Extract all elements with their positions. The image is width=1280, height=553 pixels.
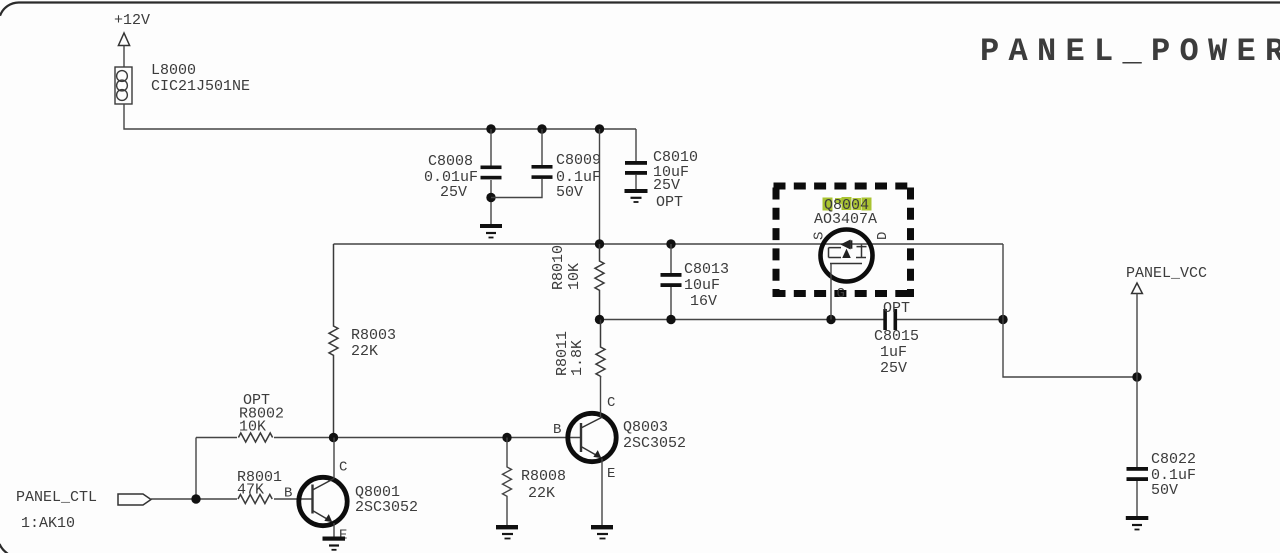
svg-text:G: G: [837, 286, 845, 302]
capacitor C8008 0.01uF 25V: [424, 129, 502, 224]
wire drain drop to output: [1003, 244, 1137, 377]
ground under R8008: [496, 525, 518, 539]
svg-text:1.8K: 1.8K: [569, 340, 586, 376]
node junction bus1-C8009: [537, 124, 546, 133]
mosfet internals: drain contact: [856, 245, 867, 259]
svg-text:1uF: 1uF: [880, 344, 907, 361]
mosfet internals: channel arrow: [843, 250, 850, 258]
svg-text:10K: 10K: [566, 263, 583, 290]
sheet border frame: [0, 2, 1280, 15]
svg-text:50V: 50V: [556, 184, 583, 201]
highlight marks on Q8004: [823, 197, 872, 211]
ground under C8008: [480, 224, 502, 238]
wire PANEL_CTL to R8001: [151, 498, 237, 500]
svg-text:E: E: [607, 466, 615, 482]
capacitor C8009 0.1uF 50V: [491, 129, 601, 201]
node junction bus3-drain drop: [998, 315, 1007, 324]
svg-text:C8008: C8008: [428, 153, 473, 170]
node PANEL_VCC: [1126, 265, 1207, 377]
wire output to C8022: [1136, 377, 1138, 467]
resistor R8001 47K: [237, 469, 282, 504]
node junction bus3-gate: [826, 315, 835, 324]
resistor R8002 10K OPT: [238, 392, 284, 442]
svg-text:C: C: [339, 460, 347, 476]
node junction base bus-R8003: [329, 433, 338, 442]
resistor R8003 22K: [329, 244, 396, 438]
svg-text:L8000: L8000: [151, 62, 196, 79]
svg-text:OPT: OPT: [656, 194, 683, 211]
mosfet internals: source contact: [829, 248, 842, 258]
svg-text:CIC21J501NE: CIC21J501NE: [151, 78, 250, 95]
svg-text:22K: 22K: [528, 485, 555, 502]
wire Q8003 collector to R8011: [600, 376, 602, 417]
svg-text:Q8003: Q8003: [623, 419, 668, 436]
svg-text:C8013: C8013: [684, 261, 729, 278]
svg-text:OPT: OPT: [883, 300, 910, 317]
svg-text:10K: 10K: [239, 419, 266, 436]
wire gate to bus3: [830, 264, 832, 320]
svg-text:10uF: 10uF: [684, 277, 720, 294]
svg-text:50V: 50V: [1151, 482, 1178, 499]
svg-text:47K: 47K: [237, 482, 264, 499]
svg-text:2SC3052: 2SC3052: [355, 499, 418, 516]
wire bus2 source rail: [334, 243, 1004, 245]
transistor Q8001 2SC3052: [299, 477, 418, 525]
svg-text:R8010: R8010: [550, 245, 567, 290]
svg-text:25V: 25V: [880, 360, 907, 377]
svg-text:2SC3052: 2SC3052: [623, 435, 686, 452]
svg-text:25V: 25V: [653, 177, 680, 194]
svg-text:C8022: C8022: [1151, 451, 1196, 468]
mosfet internals: gate plate: [830, 263, 862, 265]
capacitor C8013 10uF 16V: [661, 244, 730, 320]
node junction C8008-C8009 bottom: [486, 193, 495, 202]
node +12V: [114, 12, 150, 46]
node junction output-PANEL_VCC: [1132, 372, 1141, 381]
svg-text:R8003: R8003: [351, 327, 396, 344]
wire +12V arrow to L8000: [123, 46, 125, 68]
svg-text:PANEL_CTL: PANEL_CTL: [16, 489, 97, 506]
mosfet Q8004 AO3407A body circle: [821, 230, 873, 282]
wire R8002 left leg down: [195, 438, 197, 500]
transistor Q8003 2SC3052: [568, 413, 686, 461]
svg-text:+12V: +12V: [114, 12, 150, 29]
node junction bus1-R8010: [595, 124, 604, 133]
svg-text:C8009: C8009: [556, 152, 601, 169]
svg-text:R8008: R8008: [521, 468, 566, 485]
svg-text:1:AK10: 1:AK10: [21, 515, 75, 532]
node junction bus2-R8010: [595, 239, 604, 248]
node PANEL_CTL port: [16, 489, 151, 532]
wire bus1 to bus2 (12V rail drop): [599, 129, 601, 244]
wire R8001 to Q8001 base: [274, 498, 313, 500]
mosfet internals: body diode: [842, 240, 851, 248]
node junction bus3-R8011: [595, 315, 604, 324]
svg-text:16V: 16V: [690, 293, 717, 310]
svg-text:B: B: [284, 486, 292, 502]
ground under Q8001: [323, 537, 346, 550]
wire bus3 gate rail: [600, 319, 1004, 321]
ground under C8022: [1126, 516, 1149, 530]
svg-text:S: S: [812, 232, 828, 240]
wire Q8001 emitter: [333, 523, 335, 537]
svg-text:22K: 22K: [351, 343, 378, 360]
resistor R8011 1.8K: [554, 320, 605, 377]
inductor L8000 CIC21J501NE: [115, 62, 250, 104]
svg-text:B: B: [553, 422, 561, 438]
ground under Q8003: [591, 525, 613, 539]
svg-text:C8015: C8015: [874, 328, 919, 345]
wire Q8001 collector: [333, 438, 335, 479]
resistor R8008 22K: [503, 438, 567, 526]
mosfet Q8004 dashed highlight box: [773, 183, 915, 298]
svg-text:PANEL_VCC: PANEL_VCC: [1126, 265, 1207, 282]
node junction base bus-R8008: [502, 433, 511, 442]
svg-text:E: E: [339, 528, 347, 544]
svg-text:C: C: [607, 395, 615, 411]
wire base bus: [196, 437, 581, 439]
node junction bus2-C8013: [666, 239, 675, 248]
node junction bus3-C8013: [666, 315, 675, 324]
node junction ctl-R8002: [191, 494, 200, 503]
wire L8000 to +12V bus: [124, 104, 636, 129]
ground under C8010: [625, 189, 648, 202]
capacitor C8022 0.1uF 50V: [1127, 451, 1197, 516]
capacitor C8015 1uF 25V OPT (series in bus3): [874, 300, 919, 377]
svg-text:PANEL_POWER: PANEL_POWER: [980, 33, 1280, 70]
node junction bus1-C8008: [486, 124, 495, 133]
capacitor C8010 10uF 25V OPT: [625, 129, 698, 211]
resistor R8010 10K: [550, 244, 604, 320]
svg-text:25V: 25V: [440, 184, 467, 201]
svg-text:AO3407A: AO3407A: [814, 211, 877, 228]
svg-text:D: D: [875, 232, 891, 240]
wire Q8003 emitter: [601, 459, 603, 526]
